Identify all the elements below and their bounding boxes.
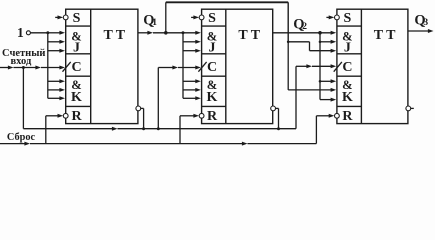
U3 S input bubble + stub (326, 15, 339, 20)
node: junction V1 J step (287, 41, 290, 44)
svg-text:S: S (344, 11, 352, 26)
flip-flop U1 (TT) body (66, 9, 138, 124)
node Q1 label (143, 13, 157, 29)
wire Q1 bus branch to U2 pin y=50.7 (183, 49, 201, 53)
node: junction on '1' wire (46, 31, 49, 34)
wire Q1 bus branch to U2 pin y=98.3 (183, 96, 201, 100)
U2 C dynamic input slash (198, 62, 206, 72)
U1 C dynamic input slash (63, 62, 71, 72)
svg-text:S: S (208, 11, 216, 26)
count input wire to U1 C (0, 66, 65, 70)
svg-text:C: C (342, 60, 352, 75)
node: junction Q1 bus / U2 pins (182, 31, 185, 34)
svg-text:Сброс: Сброс (7, 132, 36, 143)
reset rail wire (0, 142, 316, 146)
wire '1' bus branch to U1 pin y=50.7 (48, 49, 65, 53)
wire '1' bus branch to U1 pin y=89.9 (48, 88, 65, 92)
input '1' label (17, 25, 24, 40)
node: junction count wire / clock drop (22, 66, 25, 69)
svg-text:T T: T T (103, 28, 125, 43)
node Q2 label (293, 16, 307, 32)
wire clock rail to U3 C (296, 64, 336, 128)
U3 R input bubble (335, 113, 340, 118)
wire V1 step to U3 J3 (288, 42, 336, 53)
wire count drop to clock rail (22, 68, 24, 129)
node Q3 label (414, 13, 428, 29)
wire U3 inverse output stub (411, 107, 414, 109)
wire V2 branch to U3 J2 (320, 40, 336, 44)
wire reset to U1 R (46, 114, 63, 144)
wire V2 branch to U3 K1 (320, 79, 336, 83)
wire U2 inverse output stub (275, 108, 278, 128)
svg-text:J: J (209, 41, 216, 56)
clock rail wire (23, 127, 296, 131)
node: junction Q1 / top feed (164, 31, 168, 35)
svg-text:J: J (73, 41, 80, 56)
svg-text:K: K (207, 90, 218, 105)
svg-text:R: R (71, 109, 82, 124)
U2 R input bubble (199, 113, 204, 118)
wire reset to U3 R (316, 114, 334, 144)
wire Q2: U2 Q output to U3 J1 (273, 31, 337, 35)
U1 inverse output bubble (136, 106, 141, 111)
svg-text:C: C (207, 60, 217, 75)
wire U1 inverse output stub (141, 108, 144, 128)
wire Q1 bus branch to U2 pin y=89.9 (183, 88, 201, 92)
bus Q1 to U2 J/K pins (182, 33, 184, 99)
label 'Счетный вход' (2, 48, 45, 67)
wire Q3 output (408, 29, 434, 33)
svg-text:вход: вход (11, 56, 32, 67)
wire '1' bus branch to U1 pin y=41.8 (48, 40, 65, 44)
wire V2 end to U3 K3 (320, 98, 336, 102)
svg-text:C: C (71, 60, 81, 75)
top line wire (Q1 over U2) (166, 1, 288, 3)
U3 C dynamic input slash (334, 62, 342, 72)
svg-text:T T: T T (238, 28, 260, 43)
svg-text:S: S (73, 11, 81, 26)
svg-text:T T: T T (374, 28, 396, 43)
wire reset to U2 R (180, 114, 199, 144)
svg-text:J: J (344, 41, 351, 56)
node: U1 inverse stub on rail (142, 127, 145, 130)
flip-flop U3 (TT) body (337, 9, 408, 124)
svg-text:R: R (207, 109, 218, 124)
svg-text:K: K (71, 90, 82, 105)
node: junction Q2 / V2 (318, 31, 322, 35)
wire '1' bus branch to U1 pin y=81.3 (48, 79, 65, 83)
svg-text:1: 1 (17, 25, 24, 40)
svg-text:K: K (342, 90, 353, 105)
input '1' terminal (26, 31, 30, 35)
bus V1: Q1 (from top line) down to U3 K2 (287, 42, 289, 90)
wire '1' to U1 J1 pin (30, 31, 65, 35)
svg-text:1: 1 (152, 18, 157, 28)
wire Q1 riser to top line (165, 2, 167, 33)
svg-text:R: R (342, 109, 353, 124)
wire V1 end to U3 K2 (288, 88, 336, 92)
wire Q1 bus branch to U2 pin y=41.8 (183, 40, 201, 44)
svg-text:3: 3 (423, 18, 428, 28)
node: U2 inverse stub on rail (277, 127, 280, 130)
U2 S input bubble + stub (191, 15, 204, 20)
wire top line drop at x=288 (287, 2, 289, 42)
label 'Сброс' (7, 132, 36, 143)
U2 inverse output bubble (271, 106, 276, 111)
bus of '1' to U1 J/K pins (47, 33, 49, 99)
flip-flop U2 (TT) body (202, 9, 273, 124)
wire Q1: U1 Q output to U2 J1 (138, 31, 201, 35)
wire Q1 bus branch to U2 pin y=81.3 (183, 79, 201, 83)
wire '1' bus branch to U1 pin y=98.3 (48, 96, 65, 100)
U3 inverse output bubble (406, 106, 411, 111)
wire clock rail to U2 C (158, 66, 201, 129)
node: U2 clock tap on rail (157, 127, 160, 130)
svg-text:2: 2 (302, 22, 307, 32)
node: junction V2 J2 (319, 41, 322, 44)
U1 R input bubble (63, 113, 68, 118)
node: junction V2 K1 (319, 80, 322, 83)
bus V2: Q2 down to U3 pins (319, 33, 321, 100)
U1 S input bubble + stub (55, 15, 68, 20)
